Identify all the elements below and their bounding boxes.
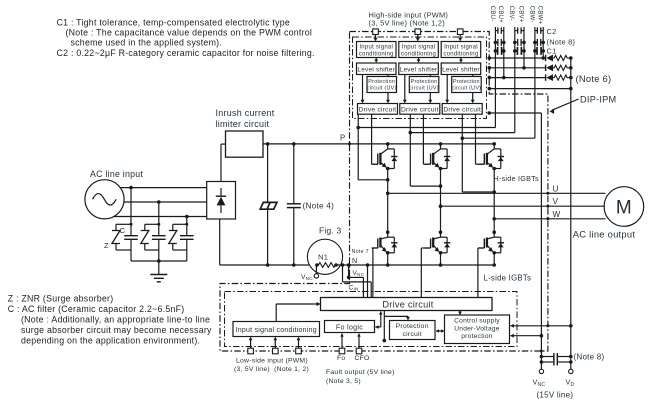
freewheel diode Q4 (L-side) xyxy=(388,236,395,238)
svg-text:C2: C2 xyxy=(547,27,557,36)
IGBT Q6 (L-side) xyxy=(492,230,496,234)
DIP-IPM module outer boundary xyxy=(220,32,548,352)
block protection circuit (UV) U2c xyxy=(409,77,439,93)
wire low-side input 1 xyxy=(250,338,252,349)
svg-text:conditioning: conditioning xyxy=(401,51,436,57)
block drive circuit (low side) xyxy=(321,298,493,311)
terminal VNC xyxy=(539,369,543,373)
block input signal conditioning U1a xyxy=(357,42,397,58)
IGBT Q1 (H-side) xyxy=(386,142,390,146)
wire P rail xyxy=(263,143,494,145)
wire VNC to UV protection xyxy=(510,335,541,337)
svg-text:Input signal: Input signal xyxy=(359,45,393,51)
wire rectifier negative to N bus xyxy=(219,219,221,265)
svg-text:Input signal: Input signal xyxy=(444,45,478,51)
input terminal high-side 2 xyxy=(415,29,421,35)
svg-text:conditioning: conditioning xyxy=(359,51,394,57)
wire VNC pin to drive circuit xyxy=(348,265,350,277)
svg-text:Protection: Protection xyxy=(396,323,429,330)
ZNR Z1 xyxy=(112,231,120,244)
svg-text:N1: N1 xyxy=(318,253,328,262)
svg-text:N: N xyxy=(352,256,357,265)
VD rail (right vertical) xyxy=(570,58,572,369)
ZNR Z2 xyxy=(141,231,149,244)
svg-text:Level shifter: Level shifter xyxy=(442,66,480,73)
svg-text:AC line input: AC line input xyxy=(90,169,143,179)
wire L-emitter to N bus 3 xyxy=(493,253,495,265)
svg-text:L-side IGBTs: L-side IGBTs xyxy=(484,274,532,283)
input terminal low-side 3 xyxy=(296,348,302,354)
IGBT Q2 (H-side) xyxy=(439,142,443,146)
wire phase output W xyxy=(494,218,605,220)
rectifier bridge DB1 xyxy=(207,182,236,220)
wire L-emitter to N bus 1 xyxy=(387,253,389,265)
wire AC line middle xyxy=(124,201,207,203)
wire thermistor branch xyxy=(266,142,270,146)
wire protection to UV protection xyxy=(436,330,444,332)
bootstrap diode D3 xyxy=(545,74,547,80)
block drive circuit U2d (high side) xyxy=(400,104,440,115)
capacitor C2 (group 2) xyxy=(515,41,518,43)
svg-text:Protection: Protection xyxy=(368,79,395,85)
terminal VD xyxy=(569,369,573,373)
input terminal high-side 1 xyxy=(373,29,379,35)
svg-text:CFO: CFO xyxy=(355,355,370,362)
wire R2 to VD rail xyxy=(568,67,571,69)
svg-text:(3, 5V line) (Note 1, 2): (3, 5V line) (Note 1, 2) xyxy=(234,366,309,373)
svg-text:Under-Voltage: Under-Voltage xyxy=(454,325,499,332)
wire drive to protection second xyxy=(383,316,385,340)
svg-text:protection: protection xyxy=(461,333,493,340)
svg-text:V: V xyxy=(553,197,559,206)
wire drive to protection circuit xyxy=(383,311,385,317)
wire filter ground bus xyxy=(131,260,187,262)
svg-text:Protection: Protection xyxy=(411,79,438,85)
wire AC line tap 3 xyxy=(185,215,189,219)
capacitor C1 (group 3) xyxy=(535,50,537,52)
svg-text:Fo: Fo xyxy=(337,355,345,362)
svg-text:depending on the application e: depending on the application environment… xyxy=(21,336,200,346)
input terminal high-side 3 xyxy=(457,29,463,35)
svg-text:Z: Z xyxy=(104,241,109,250)
svg-text:Fo logic: Fo logic xyxy=(336,322,363,331)
wire cell 3 drop xyxy=(186,250,188,261)
svg-text:C1: C1 xyxy=(547,47,557,56)
wire phase column 2 xyxy=(440,169,442,233)
svg-text:CBW+: CBW+ xyxy=(537,6,543,25)
wire protection to drive circuit 3 xyxy=(472,93,474,103)
svg-text:Input signal: Input signal xyxy=(402,45,436,51)
IGBT Q3 (H-side) xyxy=(492,142,496,146)
svg-text:(Note : The capacitance value: (Note : The capacitance value depends on… xyxy=(66,28,313,38)
wire ISC to level shifter 1 xyxy=(375,58,377,62)
block input signal conditioning (low side) xyxy=(233,322,320,337)
freewheel diode Q3 (H-side) xyxy=(494,148,501,150)
svg-text:C : AC filter (Ceramic capacit: C : AC filter (Ceramic capacitor 2.2~6.5… xyxy=(8,304,185,314)
svg-text:(Note 4): (Note 4) xyxy=(303,202,335,211)
wire AC line bottom xyxy=(114,216,207,218)
svg-text:CBU+: CBU+ xyxy=(497,6,503,23)
inrush thermistor (slashed boxes) xyxy=(260,202,277,209)
svg-text:Inrush current: Inrush current xyxy=(216,108,275,118)
bootstrap capacitor top (group 3) xyxy=(535,30,537,32)
wire smoothing cap branch xyxy=(292,142,296,146)
input terminal low-side 2 xyxy=(273,348,279,354)
wire phase output V xyxy=(441,205,606,207)
wire drive to H-gate 3 xyxy=(475,114,477,164)
wire CB- to VS 1 xyxy=(494,127,496,129)
shunt resistor N1 xyxy=(315,263,319,267)
wire low-side input 2 xyxy=(274,338,276,349)
capacitor C1 (group 2) xyxy=(515,50,518,52)
freewheel diode Q2 (H-side) xyxy=(441,148,448,150)
block protection circuit (UV) U3c xyxy=(452,77,482,93)
wire drive to H-gate 2 xyxy=(422,114,424,164)
IGBT Q4 (L-side) xyxy=(386,230,390,234)
wire ground stem xyxy=(158,261,160,274)
block level shifter U2b xyxy=(399,63,439,75)
bootstrap capacitor top (group 1) xyxy=(495,30,498,32)
wire VB row 1 xyxy=(489,57,545,59)
svg-text:(Note 3, 5): (Note 3, 5) xyxy=(326,378,361,385)
N1 circle xyxy=(307,239,342,274)
capacitor C filter 3 xyxy=(180,235,194,237)
wire N pin to drive circuit xyxy=(367,265,369,298)
wire R1 to VD rail xyxy=(568,57,571,59)
wire level shifter to drive circuit 1 xyxy=(362,75,364,103)
svg-text:CBV+: CBV+ xyxy=(517,6,523,23)
capacitor VNC-VD bottom xyxy=(541,361,554,363)
svg-text:surge absorber circuit may bec: surge absorber circuit may become necess… xyxy=(21,325,212,335)
wire CB- to VS 2 xyxy=(514,132,516,134)
block level shifter U1b xyxy=(357,63,397,75)
svg-text:Drive circuit: Drive circuit xyxy=(382,300,433,310)
filter cell 2 top/bottom bars xyxy=(145,223,159,225)
svg-text:C: C xyxy=(120,226,126,235)
wire VB row 2 xyxy=(489,67,545,69)
freewheel diode Q1 (H-side) xyxy=(388,148,395,150)
wire ISC to level shifter 3 xyxy=(460,58,462,62)
block protection circuit xyxy=(390,321,436,340)
wire L-emitter to N bus 2 xyxy=(440,253,442,265)
low-side section inner boundary xyxy=(225,292,518,347)
terminal Fo xyxy=(339,348,345,354)
inrush current limiter box xyxy=(226,131,264,157)
svg-text:Drive circuit: Drive circuit xyxy=(359,107,397,114)
wire VS feedback 2 xyxy=(409,114,411,186)
wire AC line tap 2 xyxy=(157,200,161,204)
wire CB- to VS 3 xyxy=(534,137,536,139)
svg-text:Input signal conditioning: Input signal conditioning xyxy=(236,327,317,334)
wire level shifter to protection 3 xyxy=(472,75,474,77)
freewheel diode Q6 (L-side) xyxy=(494,236,501,238)
svg-text:Drive circuit: Drive circuit xyxy=(443,107,481,114)
svg-text:Control supply: Control supply xyxy=(454,318,500,325)
svg-text:C1 : Tight tolerance, temp-com: C1 : Tight tolerance, temp-compensated e… xyxy=(57,18,291,28)
IGBT Q5 (L-side) xyxy=(439,230,443,234)
wire pin CBV- xyxy=(514,27,516,133)
wire phase column 3 xyxy=(493,169,495,233)
svg-text:Level shifter: Level shifter xyxy=(357,66,395,73)
svg-text:scheme used in the applied sys: scheme used in the applied system). xyxy=(71,38,223,48)
bootstrap diode D2 xyxy=(545,65,547,71)
wire terminal to input signal conditioning 2 xyxy=(417,35,419,41)
svg-text:W: W xyxy=(553,210,561,219)
block input signal conditioning U2a xyxy=(399,42,439,58)
wire protection to drive circuit 1 xyxy=(387,93,389,103)
block protection circuit (UV) U1c xyxy=(367,77,397,93)
svg-text:Drive circuit: Drive circuit xyxy=(401,107,439,114)
svg-text:DIP-IPM: DIP-IPM xyxy=(580,95,616,105)
svg-text:(Note : Additionally, an appro: (Note : Additionally, an appropriate lin… xyxy=(21,315,210,325)
svg-text:Note 7: Note 7 xyxy=(352,249,369,255)
wire level shifter to drive circuit 2 xyxy=(404,75,406,103)
ground symbol xyxy=(150,274,167,276)
bootstrap resistor R3 xyxy=(553,75,568,80)
svg-text:circuit (UV): circuit (UV) xyxy=(409,86,439,92)
svg-text:H-side IGBTs: H-side IGBTs xyxy=(494,174,539,183)
svg-text:C2 : 0.22~2μF R-category ceram: C2 : 0.22~2μF R-category ceramic capacit… xyxy=(57,48,315,58)
wire level shifter to drive circuit 3 xyxy=(446,75,448,103)
capacitor C filter 1 xyxy=(124,235,138,237)
svg-text:CBU-: CBU- xyxy=(489,6,495,22)
wire pin CBU+ xyxy=(503,27,505,78)
svg-text:(3, 5V line) (Note 1,2): (3, 5V line) (Note 1,2) xyxy=(369,18,445,27)
wire R3 to VD rail xyxy=(568,77,571,79)
ZNR Z3 xyxy=(169,231,177,244)
terminal CFO xyxy=(356,348,362,354)
block input signal conditioning U3a xyxy=(441,42,481,58)
svg-text:Fault output (5V line): Fault output (5V line) xyxy=(326,369,395,376)
wire level shifter to protection 1 xyxy=(387,75,389,77)
wire drive to H-gate 1 xyxy=(371,114,373,164)
capacitor VNC-VD top (Note 8) xyxy=(541,356,554,358)
wire cell 1 drop xyxy=(130,250,132,261)
wire AC line top xyxy=(120,187,206,189)
wire drive to UV protection xyxy=(459,311,461,315)
VNC supply line from module to bottom xyxy=(489,112,541,114)
wire cell 2 drop xyxy=(158,250,160,261)
capacitor C2 (group 3) xyxy=(535,41,537,43)
svg-text:(Note 8): (Note 8) xyxy=(574,352,605,361)
block drive circuit U1d (high side) xyxy=(358,104,398,115)
wire rectifier to inrush limiter xyxy=(220,144,222,181)
wire pin CBV+ xyxy=(523,27,525,68)
freewheel diode Q5 (L-side) xyxy=(441,236,448,238)
bootstrap resistor R2 xyxy=(553,65,568,70)
bootstrap resistor R1 xyxy=(553,55,568,60)
bootstrap capacitor top (group 2) xyxy=(515,30,518,32)
block level shifter U3b xyxy=(441,63,481,75)
wire ISC to drive circuit xyxy=(275,304,277,322)
svg-text:CBW-: CBW- xyxy=(528,6,534,23)
capacitor C1 (group 1) xyxy=(495,50,497,52)
wire ISC to level shifter 2 xyxy=(418,58,420,62)
block drive circuit U3d (high side) xyxy=(442,104,482,115)
svg-text:circuit (UV): circuit (UV) xyxy=(367,86,397,92)
motor M xyxy=(604,187,644,227)
svg-text:Low-side input (PWM): Low-side input (PWM) xyxy=(236,358,308,365)
capacitor C filter 2 xyxy=(152,235,166,237)
wire drive to L-gate 2 xyxy=(421,247,430,249)
smoothing capacitor (Note 4) xyxy=(287,203,301,205)
block Fo logic xyxy=(325,321,375,333)
svg-text:Level shifter: Level shifter xyxy=(400,66,438,73)
filter cell 1 top/bottom bars xyxy=(116,223,131,225)
wire level shifter to protection 2 xyxy=(429,75,431,77)
svg-text:(Note 8): (Note 8) xyxy=(547,38,576,47)
svg-text:Fig. 3: Fig. 3 xyxy=(319,226,342,236)
block control supply under-voltage protection xyxy=(445,315,510,344)
wire VD row into module xyxy=(489,88,571,90)
svg-text:CBV-: CBV- xyxy=(508,6,514,21)
capacitor C2 (group 1) xyxy=(495,41,498,43)
svg-text:(15V line): (15V line) xyxy=(537,390,574,399)
wire low-side input 3 xyxy=(298,338,300,349)
wire pin CBW+ xyxy=(542,27,544,58)
wire phase output U xyxy=(388,192,606,194)
AC source V1 xyxy=(85,180,124,219)
wire pin CBW- xyxy=(534,27,536,138)
svg-text:(Note 6): (Note 6) xyxy=(576,73,612,84)
wire N bus xyxy=(336,264,494,266)
svg-text:AC line output: AC line output xyxy=(573,229,636,240)
svg-text:P: P xyxy=(340,134,345,143)
wire VD to UV protection xyxy=(510,325,570,327)
input terminal low-side 1 xyxy=(248,348,254,354)
svg-text:Protection: Protection xyxy=(453,79,480,85)
high-side section inner boundary xyxy=(353,37,487,119)
wire phase column 1 xyxy=(387,169,389,233)
svg-text:M: M xyxy=(616,198,632,219)
svg-text:conditioning: conditioning xyxy=(443,51,478,57)
wire drive to L-gate 1 xyxy=(373,247,378,249)
wire VS feedback 1 xyxy=(357,114,359,180)
wire CIN filter to drive circuit xyxy=(342,265,344,282)
wire drive to Fo logic xyxy=(380,312,382,328)
arrow to DIP-IPM boundary xyxy=(552,99,579,110)
wire VS feedback 3 xyxy=(461,114,463,192)
wire AC line tap 1 xyxy=(129,186,133,190)
wire terminal to input signal conditioning 1 xyxy=(375,35,377,41)
wire VB row 3 xyxy=(489,77,545,79)
wire terminal to input signal conditioning 3 xyxy=(459,35,461,41)
bootstrap diode D1 xyxy=(545,55,547,61)
wire drive to L-gate 3 xyxy=(478,247,484,249)
filter cell 3 top/bottom bars xyxy=(173,223,187,225)
wire pin CBU- xyxy=(494,27,496,128)
svg-text:Z : ZNR (Surge absorber): Z : ZNR (Surge absorber) xyxy=(8,294,114,304)
wire protection to drive circuit 2 xyxy=(429,93,431,103)
svg-text:circuit: circuit xyxy=(402,331,422,338)
VNC external terminal xyxy=(315,265,317,274)
svg-text:U: U xyxy=(553,184,559,193)
svg-text:circuit (UV): circuit (UV) xyxy=(452,86,482,92)
svg-text:limiter circuit: limiter circuit xyxy=(216,119,270,129)
